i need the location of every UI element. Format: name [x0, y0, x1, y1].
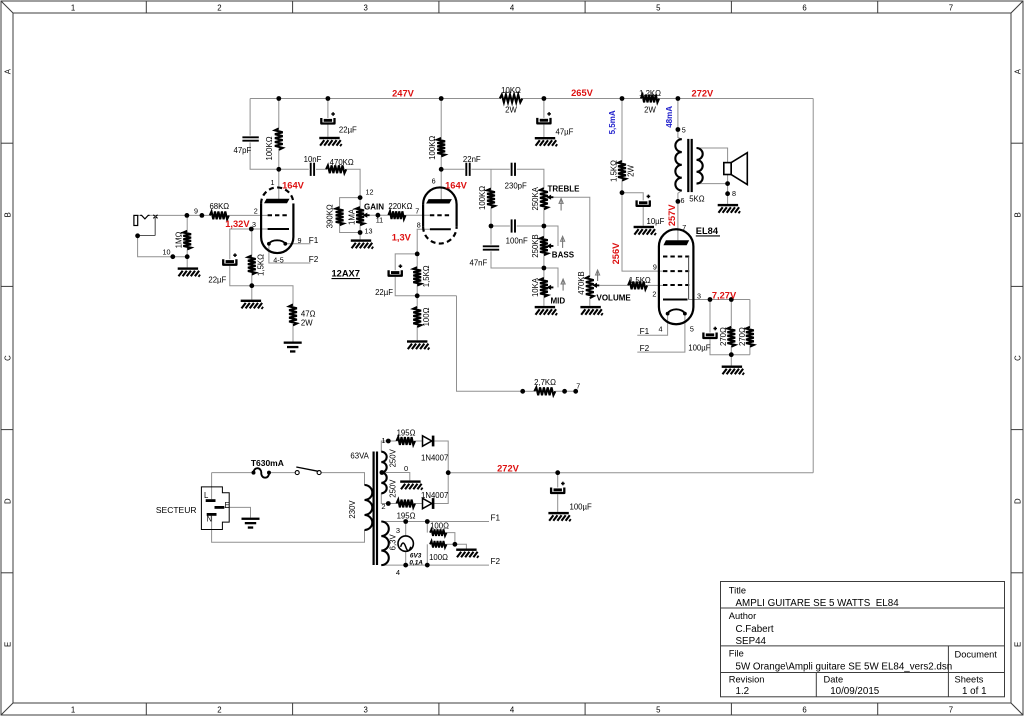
svg-text:Title: Title — [729, 586, 746, 596]
svg-text:270Ω: 270Ω — [738, 327, 747, 346]
svg-text:MID: MID — [551, 296, 566, 305]
svg-text:22nF: 22nF — [463, 155, 481, 164]
svg-text:470KΩ: 470KΩ — [330, 158, 354, 167]
svg-text:100KΩ: 100KΩ — [478, 186, 487, 210]
svg-text:6,3V: 6,3V — [389, 533, 398, 550]
svg-text:D: D — [3, 498, 12, 504]
svg-text:BASS: BASS — [552, 251, 575, 260]
svg-text:D: D — [1013, 498, 1022, 504]
svg-text:0,1A: 0,1A — [409, 559, 423, 566]
svg-text:5: 5 — [656, 706, 661, 715]
svg-text:F2: F2 — [309, 255, 319, 264]
svg-text:10KΩ: 10KΩ — [501, 86, 521, 95]
svg-text:Date: Date — [824, 674, 844, 684]
svg-text:4: 4 — [510, 706, 515, 715]
svg-text:47µF: 47µF — [556, 127, 574, 136]
svg-text:6V3: 6V3 — [410, 552, 422, 559]
svg-text:AMPLI GUITARE SE 5 WATTS EL84: AMPLI GUITARE SE 5 WATTS EL84 — [736, 598, 900, 609]
svg-text:2: 2 — [217, 706, 221, 715]
svg-text:L: L — [204, 491, 209, 500]
svg-text:C: C — [1013, 355, 1022, 361]
svg-text:63VA: 63VA — [350, 452, 369, 461]
svg-text:A: A — [1013, 68, 1022, 74]
svg-text:100Ω: 100Ω — [422, 307, 431, 326]
svg-text:22µF: 22µF — [375, 288, 393, 297]
svg-text:5KΩ: 5KΩ — [689, 195, 705, 204]
svg-text:250KB: 250KB — [531, 234, 540, 257]
svg-text:8: 8 — [417, 220, 421, 229]
svg-text:1,5KΩ: 1,5KΩ — [629, 276, 651, 285]
svg-text:390KΩ: 390KΩ — [326, 204, 335, 228]
svg-text:47Ω: 47Ω — [301, 309, 316, 318]
svg-text:4: 4 — [659, 325, 663, 334]
svg-text:1,5KΩ: 1,5KΩ — [257, 254, 266, 276]
svg-text:E: E — [225, 501, 230, 510]
svg-text:230V: 230V — [348, 500, 357, 519]
svg-text:SEP44: SEP44 — [736, 636, 767, 647]
svg-text:250V: 250V — [389, 479, 398, 498]
svg-text:Document: Document — [955, 649, 998, 659]
svg-text:5,5mA: 5,5mA — [608, 110, 617, 134]
svg-text:100µF: 100µF — [570, 502, 593, 511]
svg-text:F2: F2 — [491, 557, 501, 566]
svg-text:22µF: 22µF — [339, 126, 357, 135]
svg-text:68KΩ: 68KΩ — [209, 202, 229, 211]
svg-text:Sheets: Sheets — [955, 674, 984, 684]
svg-text:File: File — [729, 648, 744, 658]
svg-text:2W: 2W — [301, 318, 313, 327]
svg-text:10nF: 10nF — [304, 155, 322, 164]
svg-text:7: 7 — [576, 381, 580, 390]
svg-text:272V: 272V — [497, 464, 520, 474]
svg-text:12AX7: 12AX7 — [332, 269, 360, 279]
svg-text:265V: 265V — [571, 88, 594, 98]
svg-text:SECTEUR: SECTEUR — [156, 505, 197, 515]
svg-text:7,27V: 7,27V — [712, 290, 737, 300]
svg-text:10/09/2015: 10/09/2015 — [830, 686, 880, 697]
svg-text:272V: 272V — [692, 89, 715, 99]
svg-text:1,3V: 1,3V — [392, 233, 412, 243]
svg-text:257V: 257V — [667, 204, 677, 227]
svg-text:13: 13 — [365, 226, 373, 235]
svg-text:B: B — [3, 212, 12, 217]
svg-text:100nF: 100nF — [506, 237, 528, 246]
svg-text:A: A — [3, 68, 12, 74]
svg-text:TREBLE: TREBLE — [548, 184, 581, 193]
svg-text:4: 4 — [510, 4, 515, 13]
svg-text:1MΩ: 1MΩ — [174, 232, 183, 249]
svg-text:10KA: 10KA — [531, 277, 540, 297]
svg-text:F1: F1 — [491, 513, 501, 522]
svg-text:1: 1 — [271, 178, 275, 187]
svg-text:7: 7 — [682, 223, 686, 232]
svg-text:F1: F1 — [309, 236, 319, 245]
svg-text:5: 5 — [656, 4, 661, 13]
svg-text:100KΩ: 100KΩ — [428, 136, 437, 160]
svg-text:4: 4 — [396, 568, 400, 577]
svg-text:2W: 2W — [644, 106, 656, 115]
svg-text:100Ω: 100Ω — [430, 522, 449, 531]
svg-text:3: 3 — [396, 526, 400, 535]
svg-text:1.2: 1.2 — [736, 686, 750, 697]
svg-text:256V: 256V — [611, 242, 621, 265]
svg-text:247V: 247V — [392, 88, 415, 98]
svg-text:C: C — [3, 355, 12, 361]
svg-text:C.Fabert: C.Fabert — [736, 624, 774, 635]
svg-text:12: 12 — [366, 188, 374, 197]
svg-text:1N4007: 1N4007 — [421, 491, 448, 500]
svg-text:1 of 1: 1 of 1 — [962, 686, 987, 697]
svg-text:1,2KΩ: 1,2KΩ — [639, 89, 661, 98]
svg-text:0: 0 — [404, 464, 408, 473]
svg-text:5: 5 — [682, 125, 686, 134]
svg-text:230pF: 230pF — [505, 181, 527, 190]
svg-text:B: B — [1013, 212, 1022, 217]
svg-text:1: 1 — [71, 706, 75, 715]
svg-text:T630mA: T630mA — [251, 458, 284, 468]
svg-text:N: N — [207, 515, 213, 524]
svg-text:250V: 250V — [389, 448, 398, 467]
svg-text:Author: Author — [729, 611, 756, 621]
svg-text:4-5: 4-5 — [273, 255, 283, 264]
svg-text:270Ω: 270Ω — [719, 327, 728, 346]
svg-text:3: 3 — [364, 4, 368, 13]
svg-text:220KΩ: 220KΩ — [388, 202, 412, 211]
svg-text:6: 6 — [802, 4, 806, 13]
svg-text:5: 5 — [690, 324, 694, 333]
svg-text:100µF: 100µF — [688, 343, 711, 352]
svg-text:3: 3 — [697, 292, 701, 301]
svg-text:10µF: 10µF — [647, 217, 665, 226]
svg-text:7: 7 — [949, 706, 953, 715]
svg-text:9: 9 — [653, 263, 657, 272]
svg-text:1: 1 — [381, 436, 385, 445]
svg-text:48mA: 48mA — [665, 106, 674, 128]
svg-text:VOLUME: VOLUME — [597, 293, 632, 302]
svg-text:47pF: 47pF — [234, 146, 252, 155]
svg-text:F1: F1 — [640, 327, 650, 336]
svg-text:2: 2 — [254, 206, 258, 215]
svg-text:GAIN: GAIN — [364, 202, 384, 211]
svg-text:2W: 2W — [626, 165, 635, 177]
svg-text:2: 2 — [217, 4, 221, 13]
svg-text:195Ω: 195Ω — [397, 428, 416, 437]
svg-text:250KA: 250KA — [531, 186, 540, 210]
svg-text:7: 7 — [415, 207, 419, 216]
svg-text:2,7KΩ: 2,7KΩ — [534, 378, 556, 387]
svg-text:1MA: 1MA — [347, 208, 356, 225]
svg-text:2: 2 — [652, 289, 656, 298]
svg-text:F2: F2 — [640, 344, 650, 353]
svg-text:1N4007: 1N4007 — [421, 453, 448, 462]
svg-text:E: E — [1013, 642, 1022, 647]
svg-text:22µF: 22µF — [208, 276, 226, 285]
svg-text:11: 11 — [376, 216, 383, 225]
svg-text:1,32V: 1,32V — [225, 219, 250, 229]
svg-text:2W: 2W — [505, 106, 517, 115]
svg-text:164V: 164V — [282, 180, 305, 190]
svg-text:Revision: Revision — [729, 674, 765, 684]
svg-text:9: 9 — [194, 207, 198, 216]
svg-text:1: 1 — [71, 4, 75, 13]
svg-text:6: 6 — [681, 196, 685, 205]
svg-text:9: 9 — [298, 236, 302, 245]
svg-text:470KB: 470KB — [577, 271, 586, 294]
svg-text:5W Orange\Ampli guitare SE 5W: 5W Orange\Ampli guitare SE 5W EL84_vers2… — [736, 661, 953, 672]
svg-text:6: 6 — [802, 706, 806, 715]
svg-text:6: 6 — [432, 176, 436, 185]
svg-text:1,5KΩ: 1,5KΩ — [610, 160, 619, 182]
svg-text:8: 8 — [732, 189, 736, 198]
svg-text:1,5KΩ: 1,5KΩ — [422, 265, 431, 287]
svg-text:E: E — [3, 642, 12, 647]
svg-text:164V: 164V — [445, 180, 468, 190]
svg-text:EL84: EL84 — [696, 226, 719, 236]
svg-text:7: 7 — [949, 4, 953, 13]
svg-text:10: 10 — [163, 248, 171, 257]
svg-text:3: 3 — [252, 220, 256, 229]
svg-text:100Ω: 100Ω — [429, 553, 448, 562]
svg-text:100KΩ: 100KΩ — [265, 136, 274, 160]
svg-text:3: 3 — [364, 706, 368, 715]
svg-text:2: 2 — [381, 502, 385, 511]
svg-text:47nF: 47nF — [470, 258, 488, 267]
